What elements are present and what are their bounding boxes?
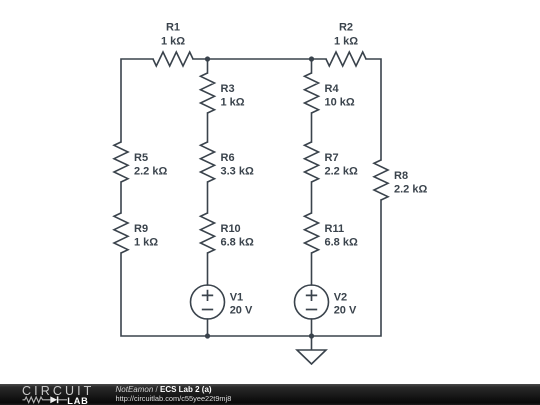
- svg-text:R4: R4: [325, 83, 340, 95]
- svg-text:6.8 kΩ: 6.8 kΩ: [325, 236, 358, 248]
- svg-text:R1: R1: [166, 22, 180, 34]
- svg-text:R11: R11: [325, 223, 345, 235]
- svg-text:2.2 kΩ: 2.2 kΩ: [134, 165, 167, 177]
- svg-text:1 kΩ: 1 kΩ: [221, 96, 245, 108]
- svg-text:R3: R3: [221, 83, 235, 95]
- svg-text:V1: V1: [230, 292, 243, 304]
- svg-text:R8: R8: [394, 170, 408, 182]
- svg-text:20 V: 20 V: [230, 305, 253, 317]
- svg-text:2.2 kΩ: 2.2 kΩ: [325, 165, 358, 177]
- svg-text:1 kΩ: 1 kΩ: [134, 236, 158, 248]
- svg-text:R10: R10: [221, 223, 241, 235]
- svg-text:R9: R9: [134, 223, 148, 235]
- svg-text:R5: R5: [134, 152, 148, 164]
- svg-text:R7: R7: [325, 152, 339, 164]
- svg-text:20 V: 20 V: [334, 305, 357, 317]
- svg-text:1 kΩ: 1 kΩ: [161, 36, 185, 48]
- svg-text:1 kΩ: 1 kΩ: [334, 36, 358, 48]
- svg-text:R2: R2: [339, 22, 353, 34]
- svg-text:R6: R6: [221, 152, 235, 164]
- svg-text:3.3 kΩ: 3.3 kΩ: [221, 165, 254, 177]
- svg-text:6.8 kΩ: 6.8 kΩ: [221, 236, 254, 248]
- svg-text:2.2 kΩ: 2.2 kΩ: [394, 183, 427, 195]
- svg-text:10 kΩ: 10 kΩ: [325, 96, 355, 108]
- svg-text:V2: V2: [334, 292, 347, 304]
